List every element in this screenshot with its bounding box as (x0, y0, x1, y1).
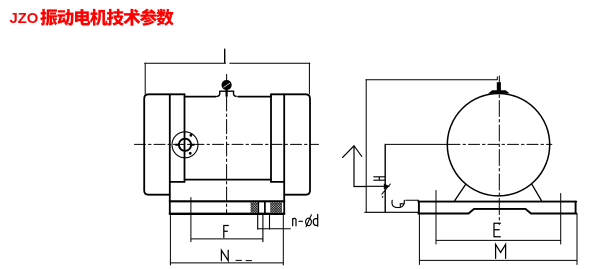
slash dot (382, 196, 384, 198)
left cap-barrel edge (184, 94, 186, 182)
overall height extension vertical (365, 80, 367, 213)
label F (224, 226, 229, 238)
bolt hole wall extension left (257, 215, 259, 230)
dimension L extension right (308, 63, 310, 93)
barrel top line (185, 96, 272, 98)
foot shoulder left (170, 181, 185, 183)
dimension H line (384, 144, 386, 212)
vertical centerline right view (498, 76, 500, 225)
dimension L extension left (144, 63, 146, 93)
base plate right edge (575, 202, 577, 214)
dimension L line (145, 62, 310, 64)
hatch left of bolt hole (251, 202, 258, 212)
base plate left edge (418, 202, 420, 214)
left support leg (455, 184, 466, 201)
base plate bottom with relief (418, 209, 576, 214)
right end cap (271, 94, 310, 194)
left cap inner joint / foot left edge (169, 94, 171, 213)
dimension E extension right (560, 194, 562, 245)
dimension M extension left (418, 214, 420, 265)
n-phid leader (258, 228, 291, 230)
horizontal centerline left view (135, 143, 319, 145)
bolt hole wall extension right (269, 215, 271, 230)
H leader arrowhead (384, 184, 390, 189)
svg-text:JZO: JZO (10, 11, 39, 27)
H leader line (366, 185, 384, 187)
right cap inner joint / foot right edge (283, 94, 285, 213)
label G (rotated) (392, 200, 404, 207)
shaft flange circle on left cap (172, 132, 198, 158)
base plate top (418, 201, 576, 203)
dimension N line (170, 262, 283, 264)
label E (494, 223, 500, 237)
hatch right of bolt hole (270, 202, 282, 212)
eye bolt pedestal (217, 91, 237, 96)
right support leg (532, 184, 542, 201)
dimension G extension bottom / base bottom extended (365, 211, 419, 213)
foot shoulder right (271, 181, 284, 183)
dimension N extension right (282, 216, 284, 266)
dimension F extension left (190, 198, 192, 242)
overall height extension line top (366, 77, 497, 80)
label N (221, 250, 228, 260)
dimension M line (419, 259, 577, 261)
dimension F line (191, 238, 263, 240)
dimension E line (436, 239, 561, 241)
dimension L label (224, 49, 226, 63)
artifact dashes on N line (236, 259, 252, 261)
left end cap (144, 94, 184, 194)
label H (rotated) (374, 177, 385, 180)
dimension N extension left (169, 216, 171, 266)
eye bolt edge-on (right view) (497, 82, 501, 91)
label n-phid (293, 218, 296, 226)
eye bolt pedestal (right view) (488, 90, 509, 93)
H leader slash (382, 184, 391, 195)
horizontal centerline extension to H dim (386, 143, 449, 145)
label M (496, 244, 506, 258)
horizontal centerline through circle (449, 143, 552, 145)
dimension F extension right (hole center) (262, 215, 264, 242)
vibration arrow barb left (343, 146, 354, 158)
barrel bottom line (185, 179, 272, 181)
bolt hole right wall (264, 201, 266, 213)
foot section top line (170, 200, 284, 202)
flange bolt dot upper (190, 134, 193, 137)
dimension M extension right (576, 214, 578, 265)
vibration arrow barb right (354, 146, 362, 157)
flange bolt dot lower (189, 152, 192, 155)
lifting eye bolt (left view) (222, 81, 231, 97)
motor body circle (447, 94, 549, 196)
right cap-barrel edge (270, 94, 272, 182)
title: JZO vibration motor technical parameters (red) (10, 9, 174, 27)
foot section bottom line (170, 213, 284, 215)
dimension G extension top (406, 199, 419, 201)
vertical centerline left view (226, 75, 228, 213)
bolt hole left wall (257, 201, 259, 213)
dimension E extension left (435, 191, 437, 245)
vibration direction arrow shaft (354, 146, 366, 187)
